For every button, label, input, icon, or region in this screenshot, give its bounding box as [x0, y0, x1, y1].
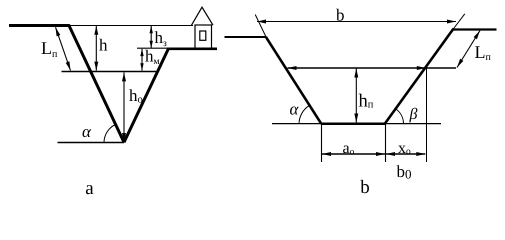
svg-text:a: a: [85, 178, 94, 199]
bottom width arrow ao (fig b): [322, 153, 385, 155]
svg-text:b: b: [360, 177, 370, 198]
right slope thin extension (fig b): [453, 14, 465, 30]
svg-text:aо: aо: [343, 140, 355, 158]
extension line below right corner (fig b): [385, 124, 387, 162]
angle arc alpha (fig b): [299, 106, 309, 124]
angle arc alpha (fig a): [104, 125, 116, 143]
bottom thin extension left (fig b): [272, 123, 321, 125]
svg-text:b: b: [336, 6, 345, 25]
ground line right (fig b): [454, 28, 497, 30]
extension line xo (fig b): [426, 68, 428, 162]
depth arrow hm (fig a): [141, 49, 143, 71]
bottom thin extension right (fig b): [385, 123, 441, 125]
building window: [200, 31, 206, 40]
left slope (fig a): [69, 25, 125, 143]
angle arc beta (fig b): [396, 109, 404, 124]
ground surface line left (fig a): [9, 24, 69, 27]
svg-text:hз: hз: [155, 28, 168, 49]
depth arrow ho (fig a): [123, 72, 125, 142]
depth arrow h3 (fig a): [150, 26, 152, 48]
svg-text:b0: b0: [397, 162, 412, 182]
berm level thin line (fig a): [137, 47, 170, 49]
svg-text:Lп: Lп: [41, 38, 58, 60]
svg-text:α: α: [82, 122, 92, 141]
svg-text:hп: hп: [359, 92, 374, 112]
right slope (fig b): [385, 29, 454, 124]
top width arrow b (fig b): [257, 21, 456, 23]
width arrow xo (fig b): [386, 153, 425, 155]
water level line with arrows (fig b): [288, 67, 457, 69]
depth arrow h (fig b): [355, 69, 357, 123]
slope length arrow Lp (fig b): [457, 31, 480, 68]
svg-text:hм: hм: [145, 47, 160, 68]
depth arrow h (fig a): [95, 26, 97, 71]
right slope (fig a): [124, 49, 169, 143]
svg-text:β: β: [409, 106, 418, 123]
channel bottom (fig b): [321, 122, 385, 125]
svg-text:Lп: Lп: [475, 42, 492, 63]
svg-text:α: α: [290, 100, 300, 119]
svg-text:hо: hо: [129, 86, 143, 106]
intermediate level line (fig a): [62, 71, 157, 73]
bottom level line (fig a): [58, 142, 125, 144]
left slope (fig b): [266, 37, 322, 124]
extension line below left corner (fig b): [321, 124, 323, 162]
approach ground line (fig b): [225, 36, 267, 38]
ground line right with building (fig a): [167, 47, 217, 50]
building roof: [192, 7, 214, 25]
svg-text:h: h: [99, 36, 108, 55]
slope length arrow Lp (fig a): [56, 27, 71, 70]
left slope thin extension (fig b): [255, 15, 266, 38]
building body: [195, 25, 212, 49]
ground surface thin line (fig a): [69, 25, 193, 27]
svg-text:xо: xо: [398, 140, 411, 157]
